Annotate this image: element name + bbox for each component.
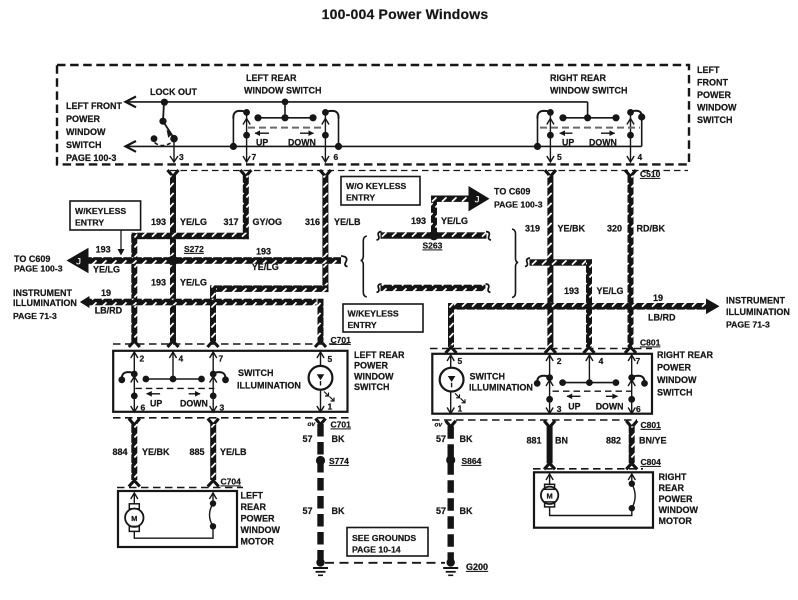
TO C609 arrow J (left) bbox=[14, 248, 89, 274]
svg-text:PAGE 10-14: PAGE 10-14 bbox=[352, 545, 401, 555]
svg-text:C701: C701 bbox=[331, 335, 352, 345]
instrument illumination arrow (right) bbox=[706, 296, 790, 330]
connector C704 dashed line bbox=[117, 487, 243, 489]
svg-text:POWER: POWER bbox=[697, 90, 732, 100]
svg-text:WINDOW SWITCH: WINDOW SWITCH bbox=[550, 86, 627, 96]
svg-text:57: 57 bbox=[436, 506, 446, 516]
wire 317 GY/OG horizontal jog bbox=[131, 233, 249, 240]
svg-text:MOTOR: MOTOR bbox=[659, 516, 693, 526]
svg-text:6: 6 bbox=[141, 403, 146, 413]
labels 881 BN 882 BN/YE bbox=[527, 436, 667, 446]
svg-text:TO C609: TO C609 bbox=[494, 187, 530, 197]
W/KEYLESS ENTRY callout box (right) bbox=[343, 304, 423, 332]
svg-text:WINDOW: WINDOW bbox=[697, 103, 737, 113]
splice S263 bbox=[429, 231, 438, 240]
svg-text:ILLUMINATION: ILLUMINATION bbox=[469, 383, 533, 393]
W/O KEYLESS ENTRY callout box bbox=[341, 177, 420, 206]
svg-text:PAGE 100-3: PAGE 100-3 bbox=[66, 153, 116, 163]
illumination bulb (right box) bbox=[440, 368, 465, 403]
svg-text:19: 19 bbox=[653, 293, 663, 303]
svg-text:193: 193 bbox=[96, 244, 111, 254]
svg-text:LOCK OUT: LOCK OUT bbox=[150, 87, 197, 97]
right box contact row bbox=[559, 379, 619, 386]
svg-text:LEFT: LEFT bbox=[241, 491, 264, 501]
svg-text:BK: BK bbox=[460, 434, 473, 444]
svg-text:SWITCH: SWITCH bbox=[470, 372, 506, 382]
svg-text:1: 1 bbox=[328, 402, 333, 412]
svg-text:ov: ov bbox=[308, 421, 316, 428]
hook at end of illumination feed run bbox=[341, 256, 348, 267]
svg-text:G200: G200 bbox=[466, 562, 488, 572]
svg-text:INSTRUMENT: INSTRUMENT bbox=[13, 288, 72, 298]
svg-text:193: 193 bbox=[564, 286, 579, 296]
labels 319 YE/BK / 320 RD/BK bbox=[525, 224, 665, 234]
wire 317 GY/OG vertical from pin 7 (C510) bbox=[240, 170, 251, 239]
svg-text:POWER: POWER bbox=[657, 363, 692, 373]
svg-text:3: 3 bbox=[220, 403, 225, 413]
options bracket (right) bbox=[512, 229, 518, 298]
svg-text:LB/RD: LB/RD bbox=[648, 313, 676, 323]
svg-text:2: 2 bbox=[557, 356, 562, 366]
svg-text:SEE GROUNDS: SEE GROUNDS bbox=[352, 533, 416, 543]
svg-text:YE/LG: YE/LG bbox=[252, 262, 279, 272]
left rear switch pole pin 7 bbox=[230, 109, 250, 162]
svg-text:UP: UP bbox=[568, 402, 580, 412]
svg-text:57: 57 bbox=[303, 434, 313, 444]
C701 pin 5 entry arrow, bulb, pin 1 exit bbox=[317, 352, 324, 413]
left box right blade bbox=[213, 372, 225, 380]
svg-text:DOWN: DOWN bbox=[288, 138, 316, 148]
wire 316 YE/LB vertical to C701 pin 7 bbox=[208, 285, 219, 347]
svg-text:ENTRY: ENTRY bbox=[348, 320, 377, 330]
svg-text:316: 316 bbox=[305, 217, 320, 227]
label LEFT REAR POWER WINDOW SWITCH bbox=[354, 350, 405, 392]
svg-text:193: 193 bbox=[411, 216, 426, 226]
svg-text:S864: S864 bbox=[462, 456, 482, 466]
left motor M symbol bbox=[125, 504, 143, 532]
svg-text:3: 3 bbox=[557, 404, 562, 414]
W/KEYLESS ENTRY callout box (left) bbox=[70, 201, 141, 256]
splice S774 bbox=[316, 456, 325, 465]
ground tie dashed line bbox=[325, 562, 445, 564]
label RIGHT REAR POWER WINDOW MOTOR bbox=[659, 472, 699, 526]
svg-text:882: 882 bbox=[606, 436, 621, 446]
svg-text:W/KEYLESS: W/KEYLESS bbox=[75, 206, 126, 216]
svg-text:POWER: POWER bbox=[66, 114, 101, 124]
svg-text:C801: C801 bbox=[641, 420, 662, 430]
ground G200 (left) bbox=[313, 558, 328, 575]
C801 pin 2 entry arrow and pole bbox=[546, 355, 553, 414]
svg-text:TO C609: TO C609 bbox=[14, 254, 50, 264]
svg-text:319: 319 bbox=[525, 224, 540, 234]
svg-text:SWITCH: SWITCH bbox=[238, 368, 274, 378]
svg-text:INSTRUMENT: INSTRUMENT bbox=[726, 296, 785, 306]
svg-text:LB/RD: LB/RD bbox=[95, 306, 123, 316]
svg-text:WINDOW: WINDOW bbox=[241, 525, 281, 535]
svg-text:DOWN: DOWN bbox=[589, 138, 617, 148]
svg-text:RIGHT REAR: RIGHT REAR bbox=[550, 73, 607, 83]
wire 885 YE/LB bbox=[208, 419, 219, 487]
left box left blade bbox=[122, 372, 135, 380]
svg-text:LEFT: LEFT bbox=[697, 65, 720, 75]
wire 317 GY/OG vertical to C701 pin 2 bbox=[129, 233, 140, 347]
svg-text:C701: C701 bbox=[331, 420, 352, 430]
wire 193 YE/LG vertical from pin 3 (C510) to C701 pin 4 bbox=[168, 170, 179, 347]
svg-text:193: 193 bbox=[151, 217, 166, 227]
right rear switch pole pin 4 bbox=[627, 109, 645, 162]
splice S864 bbox=[446, 455, 455, 464]
svg-text:7: 7 bbox=[636, 356, 641, 366]
svg-text:C801: C801 bbox=[640, 338, 661, 348]
svg-text:193: 193 bbox=[256, 247, 271, 257]
connector C701 dashed line (upper) bbox=[113, 343, 352, 345]
C701 pin 7 entry arrow and pole bbox=[210, 352, 217, 413]
wire 193 YE/LG illumination feed run with splice S272 bbox=[88, 257, 341, 264]
wire 881 BN (solid) bbox=[544, 421, 555, 470]
svg-text:ILLUMINATION: ILLUMINATION bbox=[726, 307, 790, 317]
wire vertical to C801 pin 5 bbox=[446, 303, 457, 353]
svg-text:S263: S263 bbox=[423, 241, 443, 251]
svg-text:REAR: REAR bbox=[659, 483, 685, 493]
svg-text:REAR: REAR bbox=[241, 502, 267, 512]
C801 pin 7 entry arrow and pole bbox=[628, 355, 635, 414]
svg-text:MOTOR: MOTOR bbox=[241, 537, 275, 547]
wire 320 RD/BK vertical from pin 4 (C510) to C801 pin 7 bbox=[625, 170, 636, 353]
svg-text:SWITCH: SWITCH bbox=[697, 115, 733, 125]
top bus wire with left arrowhead bbox=[125, 97, 588, 108]
right box left blade bbox=[537, 376, 549, 384]
svg-text:C510: C510 bbox=[640, 169, 661, 179]
wire 882 BN/YE bbox=[626, 421, 637, 470]
svg-text:POWER: POWER bbox=[354, 361, 389, 371]
svg-text:ILLUMINATION: ILLUMINATION bbox=[13, 298, 77, 308]
splice S263 dot bbox=[429, 231, 439, 241]
svg-text:4: 4 bbox=[599, 356, 604, 366]
right rear switch pole pin 5 bbox=[534, 109, 554, 162]
wire 316 YE/LB horizontal run to C701 pin 7 bbox=[210, 285, 328, 292]
left rear power window switch box bbox=[113, 351, 347, 412]
wire 316 YE/LB vertical from pin 6 (C510) bbox=[320, 170, 331, 292]
svg-text:YE/LG: YE/LG bbox=[441, 216, 468, 226]
svg-text:4: 4 bbox=[638, 152, 643, 162]
label LEFT FRONT POWER WINDOW SWITCH (outside right) bbox=[697, 65, 737, 125]
svg-text:881: 881 bbox=[527, 436, 542, 446]
wire 193 YE/LG stub from bracket to C801 pin 4 riser bbox=[525, 258, 592, 267]
left rear switch UP/DOWN dashed detent bbox=[248, 128, 325, 148]
ground G200 (right) bbox=[443, 558, 458, 575]
illumination bulb (left box) bbox=[309, 366, 334, 401]
svg-text:BK: BK bbox=[332, 434, 345, 444]
svg-text:S272: S272 bbox=[184, 244, 204, 254]
left motor brush arc bbox=[134, 500, 216, 538]
svg-text:100-004 Power Windows: 100-004 Power Windows bbox=[322, 6, 489, 22]
svg-text:YE/LG: YE/LG bbox=[597, 286, 624, 296]
left front power window switch assembly dashed box bbox=[57, 65, 689, 164]
wire 193 YE/LG vertical to C801 pin 4 bbox=[584, 259, 595, 353]
label LEFT REAR POWER WINDOW MOTOR bbox=[241, 491, 281, 547]
svg-text:GY/OG: GY/OG bbox=[253, 217, 283, 227]
options bracket (left) bbox=[361, 236, 367, 297]
svg-text:PAGE 71-3: PAGE 71-3 bbox=[726, 320, 770, 330]
splice S272 bbox=[168, 256, 178, 266]
svg-text:YE/LG: YE/LG bbox=[93, 265, 120, 275]
svg-text:W/KEYLESS: W/KEYLESS bbox=[348, 309, 399, 319]
svg-text:DOWN: DOWN bbox=[180, 398, 208, 408]
svg-text:ov: ov bbox=[435, 422, 443, 429]
bottom bus wire with left arrowhead bbox=[125, 117, 642, 152]
wire 57 BK right (from C801 pin 1) bbox=[446, 421, 456, 563]
svg-text:WINDOW: WINDOW bbox=[657, 375, 697, 385]
C801 pin 4 entry arrow to contact row bbox=[586, 355, 593, 383]
svg-text:ILLUMINATION: ILLUMINATION bbox=[237, 381, 301, 391]
right motor brush arc bbox=[550, 481, 636, 516]
SEE GROUNDS callout box bbox=[347, 528, 428, 557]
svg-text:5: 5 bbox=[458, 356, 463, 366]
svg-text:885: 885 bbox=[190, 447, 205, 457]
svg-text:57: 57 bbox=[303, 506, 313, 516]
right box right blade bbox=[632, 376, 645, 384]
svg-text:M: M bbox=[546, 492, 552, 501]
svg-text:J: J bbox=[76, 257, 81, 268]
svg-text:320: 320 bbox=[607, 224, 622, 234]
connector C801 dashed line (lower) bbox=[432, 419, 637, 421]
svg-text:317: 317 bbox=[224, 217, 239, 227]
connector line C510 (thin dashed) bbox=[170, 170, 688, 172]
svg-text:BN/YE: BN/YE bbox=[639, 436, 667, 446]
left rear switch pole pin 6 bbox=[322, 109, 342, 162]
wire 57 BK left (from C701 pin 1) bbox=[315, 419, 325, 564]
label RIGHT REAR POWER WINDOW SWITCH bbox=[657, 350, 714, 398]
left box contact row bbox=[143, 376, 205, 383]
svg-text:7: 7 bbox=[252, 152, 257, 162]
svg-text:6: 6 bbox=[334, 152, 339, 162]
svg-text:WINDOW: WINDOW bbox=[66, 127, 106, 137]
instrument illumination arrow (left) bbox=[13, 288, 317, 321]
svg-text:ENTRY: ENTRY bbox=[346, 193, 375, 203]
left rear window switch contacts (top box) bbox=[254, 99, 316, 122]
svg-text:UP: UP bbox=[562, 138, 574, 148]
svg-text:J: J bbox=[474, 195, 479, 206]
wire 884 YE/BK bbox=[129, 419, 140, 487]
svg-text:LEFT REAR: LEFT REAR bbox=[354, 350, 405, 360]
svg-text:1: 1 bbox=[458, 403, 463, 413]
svg-text:M: M bbox=[131, 514, 137, 523]
svg-text:WINDOW: WINDOW bbox=[354, 371, 394, 381]
svg-text:YE/LB: YE/LB bbox=[220, 447, 247, 457]
svg-text:YE/BK: YE/BK bbox=[558, 224, 586, 234]
svg-text:LEFT REAR: LEFT REAR bbox=[246, 73, 297, 83]
svg-text:W/O KEYLESS: W/O KEYLESS bbox=[346, 181, 407, 191]
connector C701 dashed line (lower) bbox=[113, 417, 352, 419]
right box UP/DOWN dashed detent bbox=[553, 391, 632, 411]
svg-text:884: 884 bbox=[113, 447, 128, 457]
right rear power window switch box bbox=[432, 354, 652, 414]
svg-text:7: 7 bbox=[219, 354, 224, 364]
svg-text:57: 57 bbox=[436, 434, 446, 444]
pin 3 exit arrow bbox=[170, 139, 178, 162]
svg-text:PAGE 100-3: PAGE 100-3 bbox=[14, 264, 63, 274]
svg-text:POWER: POWER bbox=[659, 494, 694, 504]
left rear power window motor box bbox=[118, 491, 237, 547]
right rear power window motor box bbox=[534, 472, 653, 527]
svg-text:UP: UP bbox=[150, 398, 162, 408]
C701 pin 4 entry arrow to contact row bbox=[169, 352, 176, 380]
connector C801 dashed line (upper) bbox=[430, 348, 652, 350]
svg-text:YE/LG: YE/LG bbox=[180, 278, 207, 288]
left box UP/DOWN dashed detent bbox=[135, 388, 214, 408]
svg-text:BN: BN bbox=[555, 436, 568, 446]
svg-text:S774: S774 bbox=[329, 456, 349, 466]
svg-text:BK: BK bbox=[332, 506, 345, 516]
right motor pins and windings bbox=[546, 474, 635, 485]
svg-text:SWITCH: SWITCH bbox=[657, 388, 693, 398]
lock out switch bbox=[151, 99, 178, 146]
svg-text:FRONT: FRONT bbox=[697, 78, 728, 88]
svg-text:ENTRY: ENTRY bbox=[75, 218, 104, 228]
svg-text:DOWN: DOWN bbox=[596, 402, 624, 412]
connector C804 dashed line bbox=[533, 468, 643, 470]
svg-text:5: 5 bbox=[557, 152, 562, 162]
svg-text:YE/BK: YE/BK bbox=[142, 447, 170, 457]
right rear switch UP/DOWN dashed detent bbox=[540, 128, 640, 148]
label LEFT FRONT POWER WINDOW SWITCH PAGE 100-3 (inside box) bbox=[66, 101, 122, 163]
svg-text:C704: C704 bbox=[221, 477, 242, 487]
svg-text:2: 2 bbox=[140, 354, 145, 364]
svg-text:BK: BK bbox=[460, 506, 473, 516]
svg-text:5: 5 bbox=[328, 354, 333, 364]
svg-text:RIGHT: RIGHT bbox=[659, 472, 688, 482]
TO C609 arrow J (right) bbox=[469, 186, 543, 211]
labels 884 YE/BK 885 YE/LB bbox=[113, 447, 248, 457]
right motor M symbol bbox=[541, 484, 558, 507]
svg-text:4: 4 bbox=[179, 354, 184, 364]
wire 193 YE/LG run (w/ keyless alternative) bbox=[377, 284, 491, 293]
svg-text:6: 6 bbox=[636, 404, 641, 414]
svg-text:PAGE 100-3: PAGE 100-3 bbox=[494, 200, 543, 210]
labels 193 YE/LG / 317 GY/OG / 316 YE/LB on vertical wires bbox=[151, 217, 361, 227]
C801 pin 5 entry arrow, bulb, pin 1 exit bbox=[447, 355, 454, 414]
wire 19 LB/RD vertical to C701 pin 5 bbox=[315, 299, 326, 347]
svg-text:UP: UP bbox=[256, 138, 268, 148]
C701 pin 2 entry arrow and pole bbox=[131, 352, 138, 413]
svg-text:SWITCH: SWITCH bbox=[66, 140, 102, 150]
wire 319 YE/BK vertical from pin 5 (C510) to C801 pin 2 bbox=[545, 170, 556, 353]
svg-text:WINDOW: WINDOW bbox=[659, 505, 699, 515]
svg-text:193: 193 bbox=[151, 278, 166, 288]
svg-text:RIGHT REAR: RIGHT REAR bbox=[657, 350, 714, 360]
right rear window switch contacts (top box) bbox=[559, 102, 619, 122]
wire 193 YE/LG run to S263 (w/o keyless) bbox=[377, 232, 492, 241]
svg-text:RD/BK: RD/BK bbox=[637, 224, 666, 234]
wire 193 YE/LG riser from S263 to J arrow bbox=[431, 196, 437, 234]
svg-text:19: 19 bbox=[101, 288, 111, 298]
svg-text:WINDOW SWITCH: WINDOW SWITCH bbox=[244, 86, 321, 96]
svg-text:C804: C804 bbox=[641, 457, 662, 467]
svg-text:PAGE 71-3: PAGE 71-3 bbox=[13, 311, 57, 321]
svg-text:LEFT FRONT: LEFT FRONT bbox=[66, 101, 122, 111]
svg-text:SWITCH: SWITCH bbox=[354, 382, 390, 392]
svg-text:YE/LG: YE/LG bbox=[180, 217, 207, 227]
left motor pins and windings bbox=[131, 493, 217, 505]
svg-text:3: 3 bbox=[179, 152, 184, 162]
svg-text:YE/LB: YE/LB bbox=[334, 217, 361, 227]
wire 19 LB/RD illumination run (right) bbox=[448, 303, 706, 310]
svg-text:POWER: POWER bbox=[241, 514, 276, 524]
